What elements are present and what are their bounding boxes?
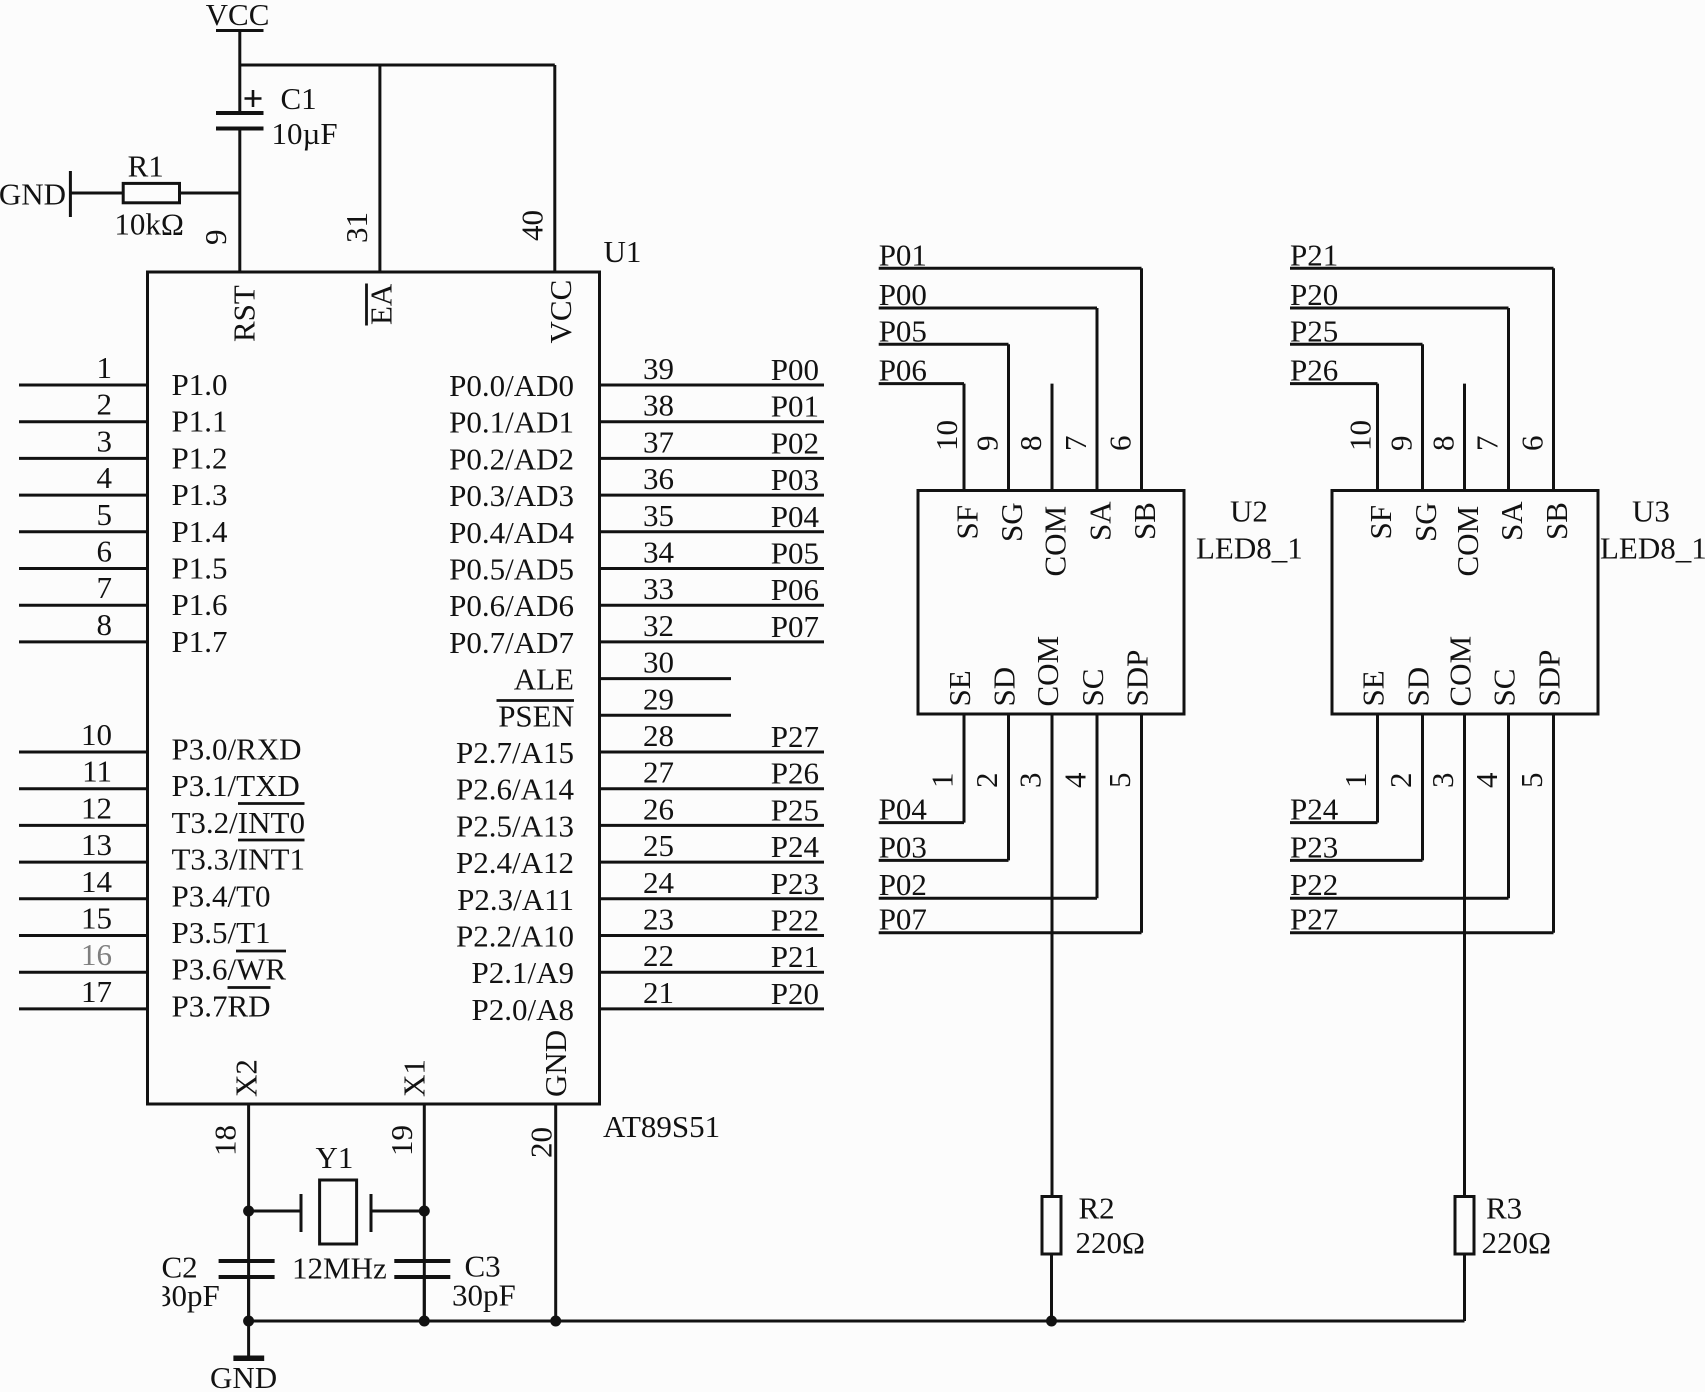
svg-text:P2.1/A9: P2.1/A9 [472, 955, 575, 990]
svg-text:P03: P03 [879, 829, 927, 864]
svg-text:SE: SE [942, 670, 977, 706]
svg-text:P0.5/AD5: P0.5/AD5 [449, 552, 574, 587]
svg-text:35: 35 [643, 498, 674, 533]
svg-text:10kΩ: 10kΩ [114, 207, 184, 242]
svg-text:P25: P25 [771, 792, 819, 827]
svg-text:2: 2 [1383, 773, 1418, 789]
svg-text:P26: P26 [1290, 353, 1338, 388]
svg-text:P05: P05 [879, 313, 927, 348]
svg-text:P02: P02 [771, 425, 819, 460]
svg-text:P0.2/AD2: P0.2/AD2 [449, 441, 574, 476]
svg-text:28: 28 [643, 718, 674, 753]
svg-text:32: 32 [643, 608, 674, 643]
svg-text:30pF: 30pF [452, 1278, 516, 1313]
svg-text:P07: P07 [771, 609, 819, 644]
svg-text:10: 10 [1343, 420, 1378, 451]
svg-text:SB: SB [1539, 502, 1574, 540]
svg-text:7: 7 [1058, 436, 1093, 452]
svg-text:21: 21 [643, 975, 674, 1010]
svg-text:3: 3 [97, 423, 113, 458]
svg-text:P25: P25 [1290, 313, 1338, 348]
svg-text:P1.5: P1.5 [172, 551, 228, 586]
svg-text:SC: SC [1487, 669, 1522, 707]
svg-text:P1.7: P1.7 [172, 624, 228, 659]
svg-text:SF: SF [1363, 505, 1398, 539]
svg-text:4: 4 [1469, 772, 1504, 788]
svg-text:40: 40 [515, 210, 550, 241]
svg-text:10: 10 [929, 420, 964, 451]
svg-text:SC: SC [1075, 669, 1110, 707]
svg-text:P0.4/AD4: P0.4/AD4 [449, 515, 574, 550]
svg-text:P2.4/A12: P2.4/A12 [456, 845, 574, 880]
svg-text:VCC: VCC [206, 0, 270, 32]
svg-text:P23: P23 [771, 866, 819, 901]
svg-text:220Ω: 220Ω [1076, 1225, 1146, 1260]
svg-text:SD: SD [987, 667, 1022, 707]
svg-text:8: 8 [97, 607, 113, 642]
svg-text:SG: SG [1408, 502, 1443, 542]
svg-text:12: 12 [81, 790, 112, 825]
svg-text:P06: P06 [771, 572, 819, 607]
svg-text:PSEN: PSEN [498, 698, 574, 733]
svg-text:U1: U1 [604, 234, 642, 269]
svg-text:P07: P07 [879, 902, 927, 937]
svg-text:R1: R1 [128, 148, 164, 183]
svg-text:AT89S51: AT89S51 [603, 1109, 720, 1144]
svg-text:10µF: 10µF [272, 116, 338, 151]
svg-text:37: 37 [643, 424, 674, 459]
svg-text:9: 9 [970, 436, 1005, 452]
svg-text:T3.2/INT0: T3.2/INT0 [172, 805, 305, 840]
svg-text:P24: P24 [771, 829, 820, 864]
svg-text:6: 6 [97, 534, 113, 569]
svg-text:4: 4 [97, 460, 113, 495]
svg-text:GND: GND [210, 1360, 277, 1392]
svg-text:30: 30 [643, 645, 674, 680]
svg-text:P00: P00 [771, 352, 819, 387]
svg-text:P06: P06 [879, 353, 927, 388]
svg-text:T3.3/INT1: T3.3/INT1 [172, 842, 305, 877]
svg-text:P05: P05 [771, 536, 819, 571]
svg-text:P00: P00 [879, 277, 927, 312]
svg-text:7: 7 [97, 570, 113, 605]
svg-text:P27: P27 [771, 719, 819, 754]
svg-text:12MHz: 12MHz [292, 1251, 387, 1286]
svg-text:5: 5 [97, 497, 113, 532]
svg-text:220Ω: 220Ω [1482, 1225, 1552, 1260]
svg-text:P3.5/T1: P3.5/T1 [172, 915, 271, 950]
svg-text:P04: P04 [879, 792, 928, 827]
svg-text:P2.3/A11: P2.3/A11 [457, 882, 574, 917]
svg-text:8: 8 [1426, 436, 1461, 452]
svg-text:P2.5/A13: P2.5/A13 [456, 808, 574, 843]
svg-text:23: 23 [643, 902, 674, 937]
svg-text:39: 39 [643, 351, 674, 386]
svg-text:25: 25 [643, 828, 674, 863]
svg-text:P1.4: P1.4 [172, 514, 228, 549]
svg-text:3: 3 [1425, 773, 1460, 789]
svg-text:P1.0: P1.0 [172, 367, 228, 402]
svg-text:26: 26 [643, 791, 674, 826]
svg-text:P20: P20 [771, 976, 819, 1011]
svg-text:2: 2 [969, 773, 1004, 789]
svg-text:6: 6 [1103, 436, 1138, 452]
svg-text:P3.1/TXD: P3.1/TXD [172, 768, 300, 803]
svg-text:5: 5 [1514, 773, 1549, 789]
svg-text:LED8_1: LED8_1 [1600, 531, 1705, 566]
svg-text:C1: C1 [281, 81, 317, 116]
svg-text:4: 4 [1058, 772, 1093, 788]
svg-text:Y1: Y1 [316, 1140, 354, 1175]
svg-text:SA: SA [1083, 501, 1118, 541]
svg-text:P02: P02 [879, 867, 927, 902]
svg-text:16: 16 [81, 937, 112, 972]
svg-text:SA: SA [1494, 501, 1529, 541]
svg-text:P1.1: P1.1 [172, 404, 228, 439]
svg-text:SDP: SDP [1532, 650, 1567, 707]
svg-text:SF: SF [950, 505, 985, 539]
svg-text:P0.3/AD3: P0.3/AD3 [449, 478, 574, 513]
svg-text:P23: P23 [1290, 829, 1338, 864]
svg-text:P20: P20 [1290, 277, 1338, 312]
svg-text:9: 9 [198, 230, 233, 246]
svg-text:P03: P03 [771, 462, 819, 497]
svg-text:P24: P24 [1290, 792, 1339, 827]
svg-text:SDP: SDP [1120, 650, 1155, 707]
svg-text:LED8_1: LED8_1 [1196, 531, 1303, 566]
svg-text:15: 15 [81, 901, 112, 936]
svg-text:6: 6 [1515, 436, 1550, 452]
svg-text:P0.6/AD6: P0.6/AD6 [449, 588, 574, 623]
svg-text:P04: P04 [771, 499, 820, 534]
svg-text:VCC: VCC [543, 280, 578, 344]
svg-text:X2: X2 [229, 1059, 264, 1097]
svg-text:10: 10 [81, 717, 112, 752]
svg-text:27: 27 [643, 755, 674, 790]
svg-text:1: 1 [1338, 773, 1373, 789]
svg-text:P2.6/A14: P2.6/A14 [456, 772, 574, 807]
svg-text:P01: P01 [771, 389, 819, 424]
svg-text:9: 9 [1384, 436, 1419, 452]
svg-text:COM: COM [1450, 506, 1485, 577]
svg-text:P2.2/A10: P2.2/A10 [456, 919, 574, 954]
svg-text:P1.3: P1.3 [172, 477, 228, 512]
svg-text:P0.1/AD1: P0.1/AD1 [449, 405, 574, 440]
svg-text:2: 2 [97, 387, 113, 422]
svg-text:30pF: 30pF [156, 1278, 220, 1313]
svg-text:P2.0/A8: P2.0/A8 [472, 992, 575, 1027]
svg-text:24: 24 [643, 865, 675, 900]
svg-text:RST: RST [227, 285, 262, 342]
svg-text:P3.0/RXD: P3.0/RXD [172, 732, 302, 767]
svg-text:P3.4/T0: P3.4/T0 [172, 878, 271, 913]
svg-text:U2: U2 [1230, 494, 1268, 529]
svg-text:17: 17 [81, 974, 112, 1009]
svg-text:36: 36 [643, 461, 674, 496]
svg-text:COM: COM [1443, 636, 1478, 707]
svg-text:5: 5 [1102, 773, 1137, 789]
svg-text:3: 3 [1013, 773, 1048, 789]
svg-text:22: 22 [643, 938, 674, 973]
svg-text:29: 29 [643, 681, 674, 716]
svg-text:GND: GND [0, 177, 66, 212]
svg-text:19: 19 [384, 1125, 419, 1156]
svg-text:P01: P01 [879, 237, 927, 272]
svg-text:P22: P22 [771, 903, 819, 938]
svg-text:P27: P27 [1290, 902, 1338, 937]
svg-text:EA: EA [364, 283, 399, 325]
svg-text:P21: P21 [771, 939, 819, 974]
svg-text:ALE: ALE [514, 662, 574, 697]
svg-text:13: 13 [81, 827, 112, 862]
svg-text:SE: SE [1356, 670, 1391, 706]
svg-text:COM: COM [1030, 636, 1065, 707]
svg-text:7: 7 [1470, 436, 1505, 452]
svg-text:P26: P26 [771, 756, 819, 791]
svg-text:33: 33 [643, 571, 674, 606]
svg-text:P3.7RD: P3.7RD [172, 988, 271, 1023]
svg-text:P0.7/AD7: P0.7/AD7 [449, 625, 574, 660]
svg-text:COM: COM [1038, 506, 1073, 577]
svg-text:GND: GND [538, 1030, 573, 1097]
svg-text:P0.0/AD0: P0.0/AD0 [449, 368, 574, 403]
svg-text:18: 18 [208, 1125, 243, 1156]
svg-text:SB: SB [1127, 502, 1162, 540]
svg-text:P1.6: P1.6 [172, 587, 228, 622]
svg-text:34: 34 [643, 535, 675, 570]
svg-text:38: 38 [643, 388, 674, 423]
svg-text:R2: R2 [1079, 1191, 1115, 1226]
svg-text:31: 31 [339, 212, 374, 243]
svg-text:20: 20 [524, 1127, 559, 1158]
svg-text:14: 14 [81, 864, 113, 899]
svg-text:P2.7/A15: P2.7/A15 [456, 735, 574, 770]
svg-text:SD: SD [1401, 667, 1436, 707]
svg-text:P1.2: P1.2 [172, 440, 228, 475]
svg-text:1: 1 [925, 773, 960, 789]
svg-text:P3.6/WR: P3.6/WR [172, 952, 287, 987]
svg-text:U3: U3 [1632, 494, 1670, 529]
svg-text:1: 1 [97, 350, 113, 385]
svg-text:P22: P22 [1290, 867, 1338, 902]
svg-text:R3: R3 [1486, 1191, 1522, 1226]
svg-text:11: 11 [82, 754, 112, 789]
svg-text:8: 8 [1013, 436, 1048, 452]
svg-text:SG: SG [994, 502, 1029, 542]
svg-text:P21: P21 [1290, 237, 1338, 272]
svg-text:X1: X1 [397, 1059, 432, 1097]
